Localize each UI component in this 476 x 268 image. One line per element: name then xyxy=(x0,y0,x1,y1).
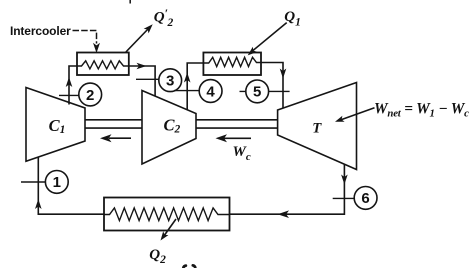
svg-text:Q′2: Q′2 xyxy=(154,6,174,29)
svg-text:4: 4 xyxy=(206,83,215,100)
svg-text:Q2: Q2 xyxy=(149,247,166,266)
svg-text:5: 5 xyxy=(253,84,261,101)
svg-text:Intercooler: Intercooler xyxy=(10,24,71,38)
svg-text:2: 2 xyxy=(86,87,94,104)
svg-text:6: 6 xyxy=(361,190,369,207)
svg-text:Q1: Q1 xyxy=(284,9,301,29)
svg-text:C1: C1 xyxy=(49,116,66,136)
svg-text:Wnet = W1 − Wc: Wnet = W1 − Wc xyxy=(374,100,469,119)
svg-text:1: 1 xyxy=(53,174,61,191)
svg-text:3: 3 xyxy=(166,73,174,90)
svg-text:C2: C2 xyxy=(164,116,181,136)
svg-text:T: T xyxy=(312,120,322,136)
svg-text:Wc: Wc xyxy=(233,144,251,163)
